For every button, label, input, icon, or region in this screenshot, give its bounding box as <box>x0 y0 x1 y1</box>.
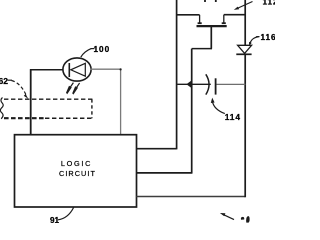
svg-text:116: 116 <box>261 33 276 42</box>
svg-text:91: 91 <box>50 216 60 223</box>
svg-text:62: 62 <box>0 76 8 86</box>
svg-text:114: 114 <box>225 112 241 122</box>
svg-text:CIRCUIT: CIRCUIT <box>59 169 96 178</box>
svg-text:100: 100 <box>94 45 111 54</box>
svg-text:LOGIC: LOGIC <box>61 159 92 168</box>
svg-text:112: 112 <box>263 0 276 6</box>
